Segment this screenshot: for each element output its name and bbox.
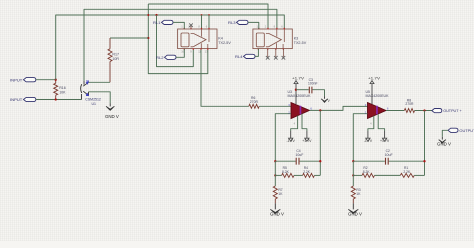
- wire U5 -in to feedback: [353, 114, 367, 162]
- wire input+ to node: [36, 79, 56, 81]
- wire net N1 input+ to relay K3 pin: [56, 15, 285, 80]
- svg-text:U1: U1: [92, 102, 97, 106]
- svg-text:1K: 1K: [356, 192, 361, 196]
- node N1 relay pin junction a: [201, 14, 203, 16]
- power return V symbol: [324, 96, 326, 99]
- wire U3 feedback drop: [319, 110, 321, 175]
- node fb2 right cap junction: [423, 160, 425, 162]
- resistor R7 1K: [274, 175, 276, 186]
- wire fb2 left link: [352, 161, 354, 175]
- resistor R8 270R: [404, 109, 414, 113]
- port INPUT+ (top input): [24, 78, 36, 82]
- svg-text:10R: 10R: [112, 57, 119, 61]
- power +1.7V U5 top: [371, 84, 373, 104]
- transient limiter U1 CSM2512: [83, 81, 85, 85]
- wire output feedback drop: [424, 111, 426, 176]
- capacitor C2 10uF: [386, 158, 389, 165]
- svg-text:R17: R17: [112, 53, 119, 57]
- wire net N3 top loop: [148, 4, 268, 74]
- wire R17 to limiter top-right: [89, 81, 111, 83]
- op-amp U3 MAX4200: [291, 103, 310, 119]
- svg-text:10uF: 10uF: [385, 153, 393, 157]
- wire RL2 to K4 coil: [176, 49, 184, 58]
- svg-text:8: 8: [198, 25, 200, 29]
- resistor R3 1K: [352, 175, 354, 186]
- wire input- to node: [36, 99, 82, 101]
- svg-text:8.2K: 8.2K: [363, 170, 371, 174]
- svg-text:2: 2: [265, 25, 267, 29]
- wire N1 drop to K4 pin 6: [208, 15, 210, 29]
- power +1.7V U3 bottom: [302, 114, 307, 131]
- power +1.7V U5 bottom: [378, 114, 384, 131]
- svg-text:-1.7V: -1.7V: [364, 139, 373, 143]
- svg-text:8: 8: [274, 25, 276, 29]
- svg-text:6: 6: [281, 25, 283, 29]
- wire RL3 to K3 coil: [248, 22, 259, 29]
- svg-text:R16: R16: [59, 86, 66, 90]
- svg-text:+1.7V: +1.7V: [380, 139, 390, 143]
- node fb1 right cap junction: [319, 160, 321, 162]
- svg-text:GND V: GND V: [270, 212, 284, 217]
- wire U3 supply to C3: [296, 89, 309, 91]
- svg-text:RL4: RL4: [235, 55, 243, 59]
- port RL4: [244, 54, 256, 58]
- wire U3 -in to feedback: [275, 114, 291, 162]
- relay K4: [178, 29, 217, 49]
- wire U5 output to R8: [386, 110, 404, 112]
- wire net N2 limiter to relay K3 pin: [84, 9, 277, 80]
- wire R6 to U3 +in: [259, 105, 291, 107]
- node fb2 left cap junction: [352, 160, 354, 162]
- wire fb1 mid: [294, 174, 303, 176]
- port INPUT- (bottom input): [24, 97, 36, 101]
- resistor R16: [55, 80, 57, 100]
- svg-text:6: 6: [206, 25, 208, 29]
- svg-text:RL1: RL1: [153, 21, 161, 25]
- svg-text:10uF: 10uF: [295, 153, 303, 157]
- wire R17 to N3: [110, 37, 148, 39]
- wire K4 to R6: [201, 50, 249, 107]
- svg-text:RL2: RL2: [156, 56, 164, 60]
- resistor R4 2.2K: [303, 173, 315, 177]
- wire N1 drop to K4 pin 8: [201, 15, 203, 29]
- svg-text:4: 4: [370, 121, 372, 125]
- svg-text:INPUT: INPUT: [10, 97, 23, 102]
- resistor R2 8.2K: [353, 174, 362, 176]
- port RL2: [165, 55, 177, 59]
- svg-text:INPUT: INPUT: [10, 77, 23, 82]
- svg-text:6: 6: [387, 106, 389, 110]
- wire fb2 right link: [414, 174, 424, 176]
- node N3 junction R17: [147, 37, 149, 39]
- svg-text:TX2-5V: TX2-5V: [294, 41, 307, 45]
- wire C3 to V arrow: [312, 90, 324, 97]
- wire RL4 to K3 coil: [255, 49, 258, 57]
- svg-text:TX2-5V: TX2-5V: [218, 41, 231, 45]
- svg-text:GND V: GND V: [105, 114, 119, 119]
- wire V2 N1 to relay K4 pin: [157, 15, 194, 67]
- wire OUTPUT- to ground: [442, 130, 448, 137]
- resistor R1 2.2K: [400, 173, 414, 177]
- wire fb1 right link: [314, 174, 320, 176]
- ground GND V input: [109, 103, 111, 106]
- svg-text:V: V: [328, 99, 331, 103]
- svg-text:OUTPUT -: OUTPUT -: [459, 128, 474, 133]
- node fb2 left res junction: [352, 174, 354, 176]
- svg-text:1K: 1K: [278, 192, 283, 196]
- ground GND V stage1: [274, 203, 276, 209]
- svg-text:6: 6: [310, 106, 312, 110]
- resistor R6 270R: [249, 104, 259, 108]
- svg-text:+1.7V: +1.7V: [368, 77, 381, 81]
- wire fb1 cap row: [275, 160, 320, 162]
- svg-text:8.2K: 8.2K: [282, 170, 290, 174]
- capacitor C4 10uF: [296, 158, 299, 165]
- wire fb2 mid: [375, 174, 401, 176]
- svg-text:2.2K: 2.2K: [303, 170, 311, 174]
- wire fb2 cap row: [353, 160, 424, 162]
- wire R8 to output port: [415, 110, 432, 112]
- node input+ junction: [55, 79, 57, 81]
- relay K3: [253, 29, 292, 49]
- power +1.7V U3 top: [295, 84, 297, 104]
- node N1 relay pin junction b: [208, 14, 210, 16]
- ground GND V stage2: [352, 203, 354, 209]
- svg-text:100nF: 100nF: [308, 82, 318, 86]
- svg-text:GND V: GND V: [348, 212, 362, 217]
- wire fb1 left link: [274, 161, 276, 175]
- node fb1 left res junction: [274, 174, 276, 176]
- svg-text:270R: 270R: [250, 100, 259, 104]
- svg-text:2.2K: 2.2K: [403, 170, 411, 174]
- node N1-V2 junction: [155, 14, 157, 16]
- power -1.7V U5 bottom: [368, 116, 374, 131]
- svg-text:MAX4200EUK: MAX4200EUK: [366, 94, 390, 98]
- resistor R17: [109, 38, 111, 82]
- svg-text:10K: 10K: [59, 91, 66, 95]
- svg-text:MAX4200EUK: MAX4200EUK: [288, 94, 312, 98]
- wire RL1 to K4 coil: [173, 22, 184, 29]
- port OUTPUT-: [448, 128, 458, 132]
- wire U3 output: [310, 106, 368, 110]
- capacitor C3 100nF: [309, 87, 312, 94]
- ground GND V output: [441, 137, 443, 140]
- node U3 supply junction: [295, 89, 297, 91]
- svg-text:+1.7V: +1.7V: [302, 139, 312, 143]
- port RL3: [237, 20, 249, 24]
- resistor R5 8.2K: [275, 174, 281, 176]
- svg-text:RL3: RL3: [228, 21, 236, 25]
- op-amp U5 MAX4200: [368, 103, 387, 119]
- svg-text:1: 1: [181, 25, 183, 29]
- svg-text:+1.7V: +1.7V: [292, 77, 305, 81]
- svg-text:OUTPUT +: OUTPUT +: [443, 108, 462, 113]
- node U3 output junction: [319, 109, 321, 111]
- port RL1: [162, 20, 174, 24]
- svg-text:GND V: GND V: [437, 142, 451, 147]
- node output junction: [423, 109, 425, 111]
- wire limiter to ground: [89, 92, 111, 103]
- svg-text:-1.7V: -1.7V: [287, 139, 296, 143]
- node fb1 left cap junction: [274, 160, 276, 162]
- port OUTPUT+: [432, 109, 442, 113]
- svg-text:9: 9: [190, 50, 192, 54]
- svg-text:4: 4: [294, 121, 296, 125]
- svg-text:270R: 270R: [405, 102, 414, 106]
- node input- junction: [55, 98, 57, 100]
- power -1.7V U3 bottom: [291, 116, 298, 131]
